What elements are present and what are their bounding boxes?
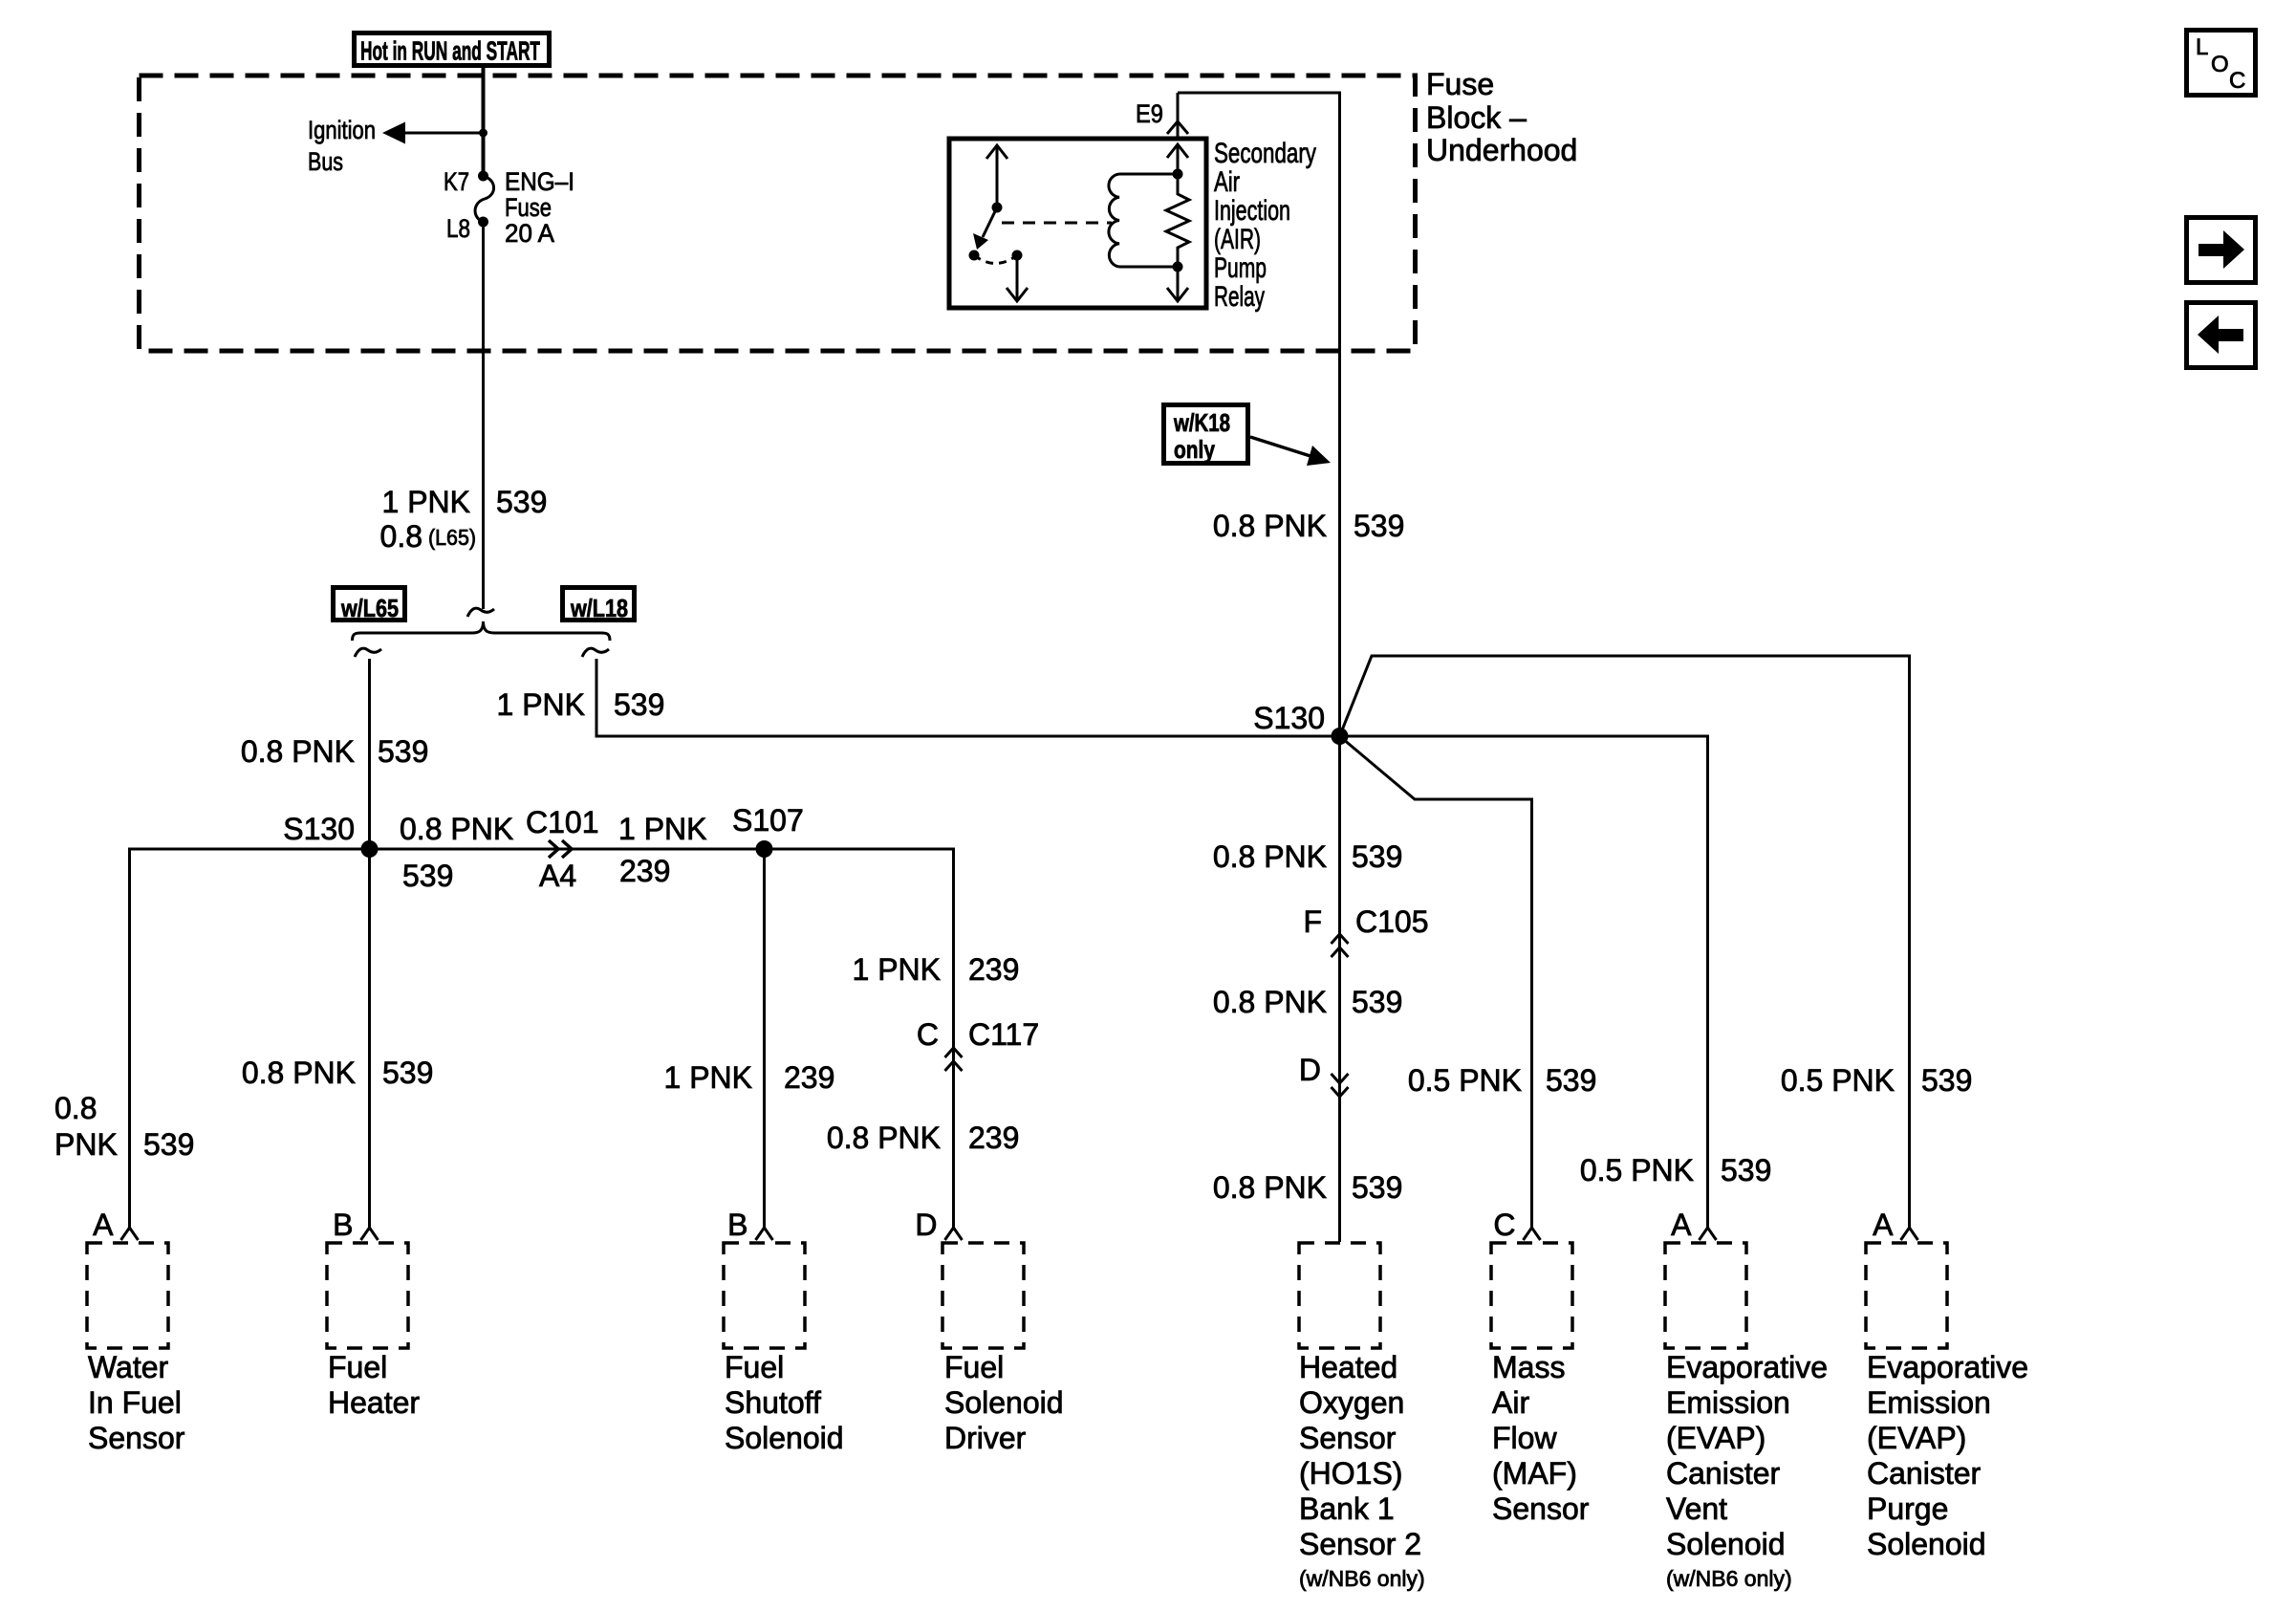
fuse ENG-I 20 A (pins K7 / L8) — [475, 171, 494, 228]
label: 0.8 PNK 539 (w/L65 branch) — [241, 734, 429, 769]
svg-text:Injection: Injection — [1214, 195, 1290, 227]
svg-text:0.8 PNK: 0.8 PNK — [400, 812, 513, 846]
svg-text:Solenoid: Solenoid — [1867, 1527, 1986, 1561]
svg-text:539: 539 — [143, 1127, 194, 1162]
connector half C117 pin C (in-line) — [945, 1048, 963, 1071]
svg-text:Driver: Driver — [944, 1421, 1027, 1455]
svg-text:239: 239 — [784, 1060, 834, 1095]
svg-text:w/L18: w/L18 — [570, 594, 628, 622]
svg-text:0.8 PNK: 0.8 PNK — [1213, 985, 1327, 1019]
component: Fuel Shutoff Solenoid — [724, 1208, 844, 1455]
label: 1 PNK 239 (Fuel Shutoff Solenoid wire) — [664, 1060, 835, 1095]
svg-text:Evaporative: Evaporative — [1867, 1350, 2028, 1384]
svg-text:L8: L8 — [446, 214, 470, 243]
node S130 (right splice) — [1332, 728, 1349, 745]
wire: w/L65 branch down to S130 — [368, 659, 371, 849]
svg-text:C: C — [917, 1017, 939, 1052]
svg-text:ENG–I: ENG–I — [505, 167, 574, 196]
wire: S107 down to Fuel Shutoff Solenoid — [763, 849, 766, 1229]
label: 0.5 PNK 539 (MAF Sensor wire) — [1408, 1063, 1597, 1098]
wire: S130 down-right to MAF Sensor — [1340, 736, 1532, 1229]
harness option brace — [353, 621, 611, 641]
wire: w/L18 branch down and over to S130 — [596, 659, 1340, 736]
svg-text:0.8: 0.8 — [380, 519, 422, 554]
svg-text:Heated: Heated — [1299, 1350, 1397, 1384]
component: Fuel Solenoid Driver — [915, 1208, 1063, 1455]
svg-text:Mass: Mass — [1492, 1350, 1565, 1384]
legend icon: arrow left box — [2187, 303, 2256, 368]
label: 1 PNK 239 (bus C101 to S107) — [618, 812, 706, 888]
svg-text:Bus: Bus — [308, 147, 343, 176]
connector half E9 on coil feed wire — [1167, 121, 1188, 134]
svg-text:239: 239 — [968, 1121, 1019, 1155]
svg-text:A4: A4 — [539, 859, 576, 893]
svg-text:A: A — [93, 1208, 114, 1242]
svg-text:539: 539 — [402, 859, 453, 893]
label: 1 PNK 539 (w/L18 branch) — [497, 687, 665, 722]
label: ENG-I Fuse 20 A — [505, 167, 574, 248]
svg-text:20 A: 20 A — [505, 219, 554, 248]
component: Fuel Heater — [327, 1208, 420, 1420]
wire option mark at split — [467, 608, 494, 617]
svg-text:0.8: 0.8 — [54, 1091, 97, 1125]
svg-text:539: 539 — [614, 687, 664, 722]
svg-text:1 PNK: 1 PNK — [382, 485, 470, 519]
svg-text:Block –: Block – — [1426, 100, 1527, 135]
dashed travel arc between throws — [974, 255, 1017, 264]
relay switch common pin (top-left, arrow up) — [986, 145, 1007, 207]
connector C101 pin A4 (in-line, on bus) — [549, 840, 572, 858]
svg-text:1 PNK: 1 PNK — [497, 687, 585, 722]
wire: supply from Hot label down to fuse pin K7 — [482, 68, 486, 176]
label: 0.8 PNK 539 (HO1S wire above C105) — [1213, 839, 1403, 874]
svg-text:539: 539 — [1352, 1170, 1402, 1205]
svg-text:E9: E9 — [1136, 99, 1163, 128]
svg-text:Emission: Emission — [1666, 1385, 1790, 1420]
relay coil suppression resistor — [1166, 169, 1189, 272]
svg-text:0.8 PNK: 0.8 PNK — [1213, 839, 1327, 874]
connector half C105 pin F (in-line) — [1332, 934, 1349, 957]
svg-text:Ignition: Ignition — [308, 116, 376, 144]
label: 0.8 PNK 539 (bus S130 to C101) — [400, 812, 513, 893]
svg-text:(EVAP): (EVAP) — [1867, 1421, 1966, 1455]
svg-text:(w/NB6 only): (w/NB6 only) — [1666, 1566, 1792, 1591]
svg-text:Canister: Canister — [1867, 1456, 1982, 1491]
svg-text:1 PNK: 1 PNK — [853, 952, 941, 987]
component: Mass Air Flow (MAF) Sensor — [1491, 1208, 1590, 1526]
label: 0.8 PNK 539 (HO1S wire below D) — [1213, 1170, 1403, 1205]
relay coil supply pin E9 (top-right, arrow up) — [1167, 144, 1188, 174]
option label box w/K18 only — [1164, 405, 1248, 465]
svg-text:Solenoid: Solenoid — [725, 1421, 844, 1455]
svg-text:0.5 PNK: 0.5 PNK — [1781, 1063, 1895, 1098]
svg-text:Fuel: Fuel — [944, 1350, 1004, 1384]
arrow: to ignition bus — [382, 122, 405, 144]
legend icon: arrow right box — [2187, 218, 2256, 283]
svg-text:B: B — [333, 1208, 353, 1242]
svg-text:C105: C105 — [1355, 904, 1429, 939]
svg-text:S107: S107 — [732, 803, 804, 838]
svg-text:K7: K7 — [444, 167, 469, 196]
svg-text:539: 539 — [1354, 509, 1404, 543]
label: 0.8 PNK 539 (HO1S wire between C105 and D) — [1213, 985, 1403, 1019]
label: 1 PNK 539 (fuse output wire) — [380, 485, 548, 554]
svg-text:Solenoid: Solenoid — [1666, 1527, 1786, 1561]
svg-text:239: 239 — [619, 854, 670, 888]
svg-text:Flow: Flow — [1492, 1421, 1557, 1455]
label: 0.8 PNK 539 (Water In Fuel Sensor wire) — [54, 1091, 194, 1162]
relay switch movable arm — [973, 203, 1003, 250]
relay coil — [1109, 174, 1178, 267]
wire: fuse output down to harness option split — [482, 222, 485, 609]
svg-text:only: only — [1174, 435, 1215, 464]
svg-text:D: D — [915, 1208, 937, 1242]
svg-text:Sensor 2: Sensor 2 — [1299, 1527, 1421, 1561]
svg-text:(MAF): (MAF) — [1492, 1456, 1577, 1491]
svg-text:Shutoff: Shutoff — [725, 1385, 821, 1420]
svg-text:Underhood: Underhood — [1426, 133, 1577, 167]
power source label box: Hot in RUN and START — [355, 33, 550, 66]
svg-text:Fuel: Fuel — [328, 1350, 387, 1384]
svg-text:Relay: Relay — [1214, 281, 1265, 313]
svg-text:(HO1S): (HO1S) — [1299, 1456, 1402, 1491]
svg-text:(L65): (L65) — [428, 525, 476, 550]
svg-text:Canister: Canister — [1666, 1456, 1781, 1491]
relay U: Secondary Air Injection (AIR) Pump Relay box — [949, 139, 1206, 308]
svg-text:Water: Water — [88, 1350, 169, 1384]
svg-text:S130: S130 — [283, 812, 355, 846]
svg-text:Secondary: Secondary — [1214, 138, 1316, 169]
svg-text:Pump: Pump — [1214, 252, 1267, 284]
label: 0.8 PNK 539 (E9 to S130 wire) — [1213, 509, 1405, 543]
svg-text:F: F — [1303, 904, 1322, 939]
label: 1 PNK 239 (Fuel Solenoid Driver wire above C117) — [853, 952, 1020, 987]
node S130 (left splice) — [361, 840, 379, 858]
svg-text:0.8 PNK: 0.8 PNK — [1213, 509, 1327, 543]
svg-text:539: 539 — [1546, 1063, 1596, 1098]
wire: ignition bus feed — [400, 132, 484, 135]
svg-text:Fuse: Fuse — [1426, 67, 1494, 101]
wire: S130 down to Heated Oxygen Sensor — [1338, 736, 1341, 1242]
svg-text:539: 539 — [1721, 1153, 1771, 1187]
svg-text:539: 539 — [1921, 1063, 1972, 1098]
svg-text:0.5 PNK: 0.5 PNK — [1408, 1063, 1522, 1098]
legend icon: LOC page reference box — [2187, 31, 2256, 96]
svg-text:539: 539 — [496, 485, 547, 519]
component: EVAP Canister Vent Solenoid — [1665, 1208, 1828, 1591]
svg-text:Sensor: Sensor — [1299, 1421, 1397, 1455]
svg-text:w/K18: w/K18 — [1173, 408, 1230, 437]
svg-text:Oxygen: Oxygen — [1299, 1385, 1404, 1420]
relay coil ground pin (bottom-right, arrow down) — [1167, 267, 1188, 301]
svg-text:D: D — [1299, 1053, 1321, 1087]
wire option mark on w/L65 branch — [355, 648, 381, 657]
svg-text:0.8 PNK: 0.8 PNK — [827, 1121, 941, 1155]
label: 0.8 PNK 239 (Fuel Solenoid Driver wire below C117) — [827, 1121, 1020, 1155]
svg-text:(EVAP): (EVAP) — [1666, 1421, 1765, 1455]
svg-text:Vent: Vent — [1666, 1491, 1727, 1526]
node: ignition bus tap — [479, 129, 487, 138]
svg-text:Evaporative: Evaporative — [1666, 1350, 1828, 1384]
svg-text:A: A — [1873, 1208, 1894, 1242]
svg-text:Sensor: Sensor — [1492, 1491, 1590, 1526]
wire: S130 down to Fuel Heater — [368, 849, 371, 1229]
svg-text:O: O — [2211, 52, 2229, 77]
arrow: w/K18 only callout to wire — [1250, 437, 1331, 466]
svg-text:C: C — [1493, 1208, 1515, 1242]
svg-text:539: 539 — [378, 734, 428, 769]
svg-text:Emission: Emission — [1867, 1385, 1991, 1420]
wire: S130 up-right to EVAP Canister Purge Solenoid — [1340, 656, 1910, 1229]
svg-text:w/L65: w/L65 — [340, 594, 399, 622]
label: 0.5 PNK 539 (EVAP Purge Solenoid wire) — [1781, 1063, 1973, 1098]
node S107 (splice) — [756, 840, 773, 858]
svg-text:Sensor: Sensor — [88, 1421, 185, 1455]
label: 0.5 PNK 539 (EVAP Vent Solenoid wire) — [1580, 1153, 1772, 1187]
svg-text:Air: Air — [1492, 1385, 1529, 1420]
wire: E9 feed over and down to S130 — [1178, 93, 1340, 736]
svg-text:B: B — [727, 1208, 747, 1242]
svg-text:539: 539 — [382, 1056, 433, 1090]
connector half pin D (in-line, pointing down) — [1332, 1074, 1349, 1097]
wire: E9 pin up from relay box — [1177, 93, 1180, 139]
svg-text:0.8 PNK: 0.8 PNK — [242, 1056, 356, 1090]
svg-text:(w/NB6 only): (w/NB6 only) — [1299, 1566, 1425, 1591]
svg-text:0.8 PNK: 0.8 PNK — [1213, 1170, 1327, 1205]
svg-text:0.8 PNK: 0.8 PNK — [241, 734, 355, 769]
svg-text:Heater: Heater — [328, 1385, 420, 1420]
label: 0.8 PNK 539 (Fuel Heater wire) — [242, 1056, 434, 1090]
svg-text:Bank 1: Bank 1 — [1299, 1491, 1395, 1526]
option box w/L65 — [334, 588, 405, 623]
svg-text:539: 539 — [1352, 985, 1402, 1019]
dashed mechanical link switch-to-coil — [1002, 222, 1112, 225]
label: Secondary Air Injection (AIR) Pump Relay — [1214, 138, 1316, 313]
svg-text:S130: S130 — [1253, 701, 1325, 735]
component: EVAP Canister Purge Solenoid — [1866, 1208, 2028, 1561]
svg-text:Air: Air — [1214, 166, 1240, 198]
svg-text:1 PNK: 1 PNK — [664, 1060, 752, 1095]
relay switch contact throw (NC, left) — [969, 250, 980, 261]
relay output pin (bottom, arrow down) — [1007, 255, 1028, 301]
component: Heated Oxygen Sensor (HO1S) Bank 1 Sensor 2 — [1299, 1243, 1425, 1591]
svg-text:In Fuel: In Fuel — [88, 1385, 182, 1420]
svg-text:(AIR): (AIR) — [1214, 224, 1261, 255]
svg-text:0.5 PNK: 0.5 PNK — [1580, 1153, 1694, 1187]
component: Water In Fuel Sensor — [87, 1208, 185, 1455]
svg-text:PNK: PNK — [54, 1127, 118, 1162]
fuse block dashed boundary — [140, 76, 1416, 351]
label: Fuse Block - Underhood — [1426, 67, 1577, 167]
svg-text:C117: C117 — [968, 1017, 1039, 1052]
svg-text:Solenoid: Solenoid — [944, 1385, 1064, 1420]
svg-text:C101: C101 — [526, 805, 599, 839]
svg-text:Fuse: Fuse — [505, 193, 552, 222]
wire: splice bus from Water In Fuel Sensor over to Fuel Solenoid Driver — [130, 849, 954, 1229]
svg-text:C: C — [2229, 68, 2245, 94]
svg-text:A: A — [1671, 1208, 1692, 1242]
svg-text:1 PNK: 1 PNK — [618, 812, 706, 846]
label: Ignition Bus — [308, 116, 376, 176]
svg-text:Fuel: Fuel — [725, 1350, 784, 1384]
svg-text:539: 539 — [1352, 839, 1402, 874]
option box w/L18 — [563, 588, 635, 623]
relay switch contact throw (NO, right) — [1012, 250, 1023, 261]
svg-text:L: L — [2196, 34, 2208, 60]
svg-text:239: 239 — [968, 952, 1019, 987]
wire: S130 right to EVAP Canister Vent Solenoid — [1340, 736, 1708, 1229]
svg-text:Purge: Purge — [1867, 1491, 1948, 1526]
svg-text:Hot in RUN and START: Hot in RUN and START — [360, 36, 540, 66]
wire option mark on w/L18 branch — [582, 648, 609, 657]
